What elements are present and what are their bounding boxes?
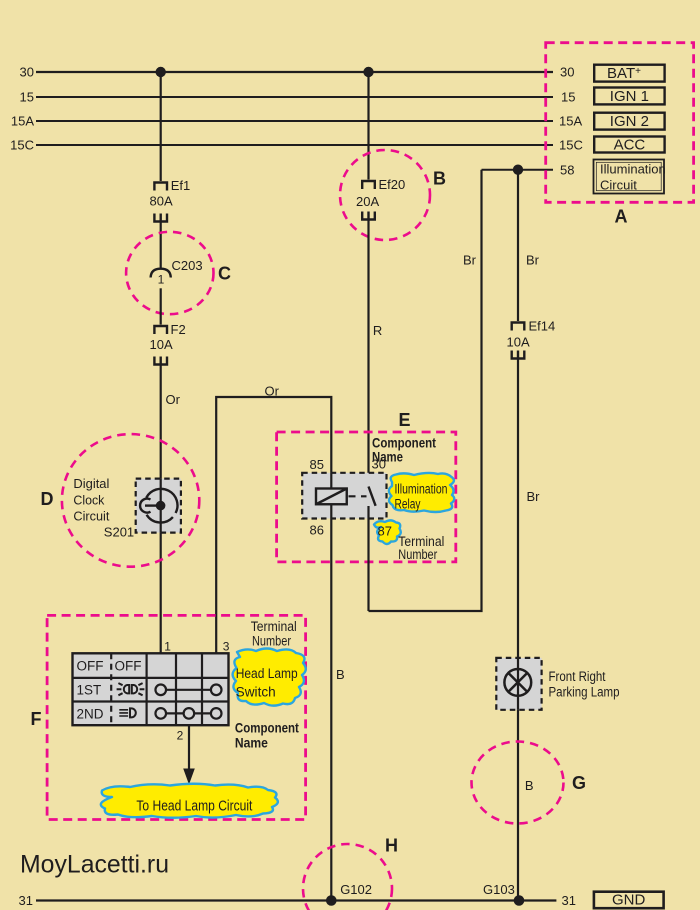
splice S201 center dot (156, 501, 166, 511)
svg-text:58: 58 (560, 162, 574, 177)
wire fuse Ef1 to connector C203 (160, 222, 162, 270)
svg-text:IGN 2: IGN 2 (610, 113, 649, 130)
TOPLEFT (41, 67, 374, 654)
box ACC (594, 137, 664, 153)
svg-text:Name: Name (235, 735, 268, 751)
svg-text:87: 87 (378, 524, 392, 539)
wire Ef20 down to relay contact 30 (367, 220, 369, 487)
svg-text:Number: Number (252, 634, 291, 649)
svg-text:Or: Or (166, 392, 181, 407)
wire from junction 58 down to fuse Ef14 (517, 170, 519, 321)
svg-text:30: 30 (560, 65, 574, 80)
fuse Ef20 (361, 181, 376, 220)
svg-text:G: G (572, 773, 586, 793)
svg-text:To Head Lamp Circuit: To Head Lamp Circuit (136, 798, 253, 815)
svg-text:10A: 10A (507, 335, 530, 350)
bus 15 (36, 96, 553, 98)
svg-text:A: A (615, 207, 628, 227)
bus 31 ground (36, 899, 556, 901)
svg-text:Br: Br (527, 489, 541, 504)
BOTTOM (20, 836, 664, 910)
svg-text:E: E (399, 410, 411, 430)
svg-text:Or: Or (265, 384, 280, 399)
svg-text:Ef1: Ef1 (171, 178, 191, 193)
svg-text:F2: F2 (171, 322, 186, 337)
svg-text:1: 1 (158, 273, 165, 287)
svg-text:15C: 15C (559, 138, 583, 153)
RELAY (277, 165, 524, 901)
table row lines (73, 677, 229, 679)
svg-text:80A: 80A (150, 194, 173, 209)
fuse Ef14 (511, 323, 526, 359)
box IGN 1 (594, 88, 664, 105)
highlight blob To Head Lamp Circuit (101, 784, 278, 818)
ground G103 junction dot (514, 895, 525, 906)
svg-text:R: R (373, 323, 382, 338)
ABOX (546, 43, 694, 227)
svg-text:31: 31 (562, 893, 576, 908)
table dashed column divider (110, 653, 112, 725)
dashed box E illumination relay (277, 432, 456, 562)
lamp bulb symbol (504, 669, 531, 696)
svg-text:86: 86 (310, 523, 324, 538)
splice S201 symbol (140, 489, 177, 523)
highlight blob Illumination Relay (389, 473, 454, 512)
RIGHTSIDE (463, 170, 620, 901)
dashed circle C around connector (126, 232, 213, 314)
MIDDLE (216, 72, 446, 653)
junction dot on bus 30 at x=160.7 (156, 67, 166, 77)
svg-text:Number: Number (398, 547, 437, 562)
svg-text:1ST: 1ST (77, 683, 102, 698)
contact lower terminal wire (367, 506, 369, 611)
svg-text:Br: Br (526, 253, 540, 268)
svg-text:C203: C203 (172, 258, 203, 273)
svg-text:Parking Lamp: Parking Lamp (549, 685, 620, 700)
wire 86 coil down to ground G102 (330, 519, 332, 901)
svg-text:OFF: OFF (77, 659, 104, 674)
dashed circle D digital clock (62, 434, 199, 567)
svg-text:Front Right: Front Right (549, 669, 606, 684)
contact row 1ST: circles and bar (161, 689, 216, 691)
svg-text:Illumination: Illumination (600, 162, 666, 177)
svg-text:OFF: OFF (115, 659, 142, 674)
wire through lamp box (517, 658, 519, 710)
svg-text:H: H (385, 836, 398, 856)
dashed circle H (303, 844, 392, 910)
svg-text:31: 31 (19, 893, 33, 908)
svg-text:Head Lamp: Head Lamp (236, 666, 298, 681)
arrow to head lamp circuit (188, 725, 190, 770)
wire from bus 30 down to fuse Ef20 (367, 72, 369, 180)
wire lamp down to ground G103 (517, 710, 519, 901)
svg-text:15C: 15C (10, 138, 34, 153)
svg-text:Ef14: Ef14 (529, 319, 556, 334)
wire from bus 30 down to fuse Ef1 (160, 72, 162, 181)
bus 58 segment (482, 169, 554, 171)
svg-text:2: 2 (177, 729, 184, 743)
switch S1 table body (73, 653, 229, 725)
svg-text:C: C (218, 264, 231, 284)
dashed circle B around Ef20 (340, 150, 430, 240)
parking lamp gray box (496, 658, 541, 710)
svg-text:S201: S201 (104, 525, 134, 540)
svg-text:G102: G102 (340, 882, 372, 897)
dashed circle G (472, 742, 564, 824)
BUSES (36, 72, 556, 901)
svg-text:Relay: Relay (395, 496, 421, 511)
dashed box F head lamp switch (47, 615, 306, 819)
relay coil (316, 489, 347, 505)
svg-text:IGN 1: IGN 1 (610, 88, 649, 105)
table column lines (146, 653, 148, 725)
highlight blob 87 (374, 520, 401, 544)
relay contact blade (369, 487, 376, 506)
svg-text:F: F (31, 709, 42, 729)
svg-text:Circuit: Circuit (73, 508, 109, 523)
wire F2 down to switch terminal 1 (160, 365, 162, 654)
box IGN 2 (594, 113, 664, 130)
wire Ef14 down to parking lamp (517, 359, 519, 658)
relay U1 gray box (302, 473, 386, 519)
contact row 2ND: circles and bar (161, 712, 216, 714)
svg-text:2ND: 2ND (77, 707, 104, 722)
svg-text:3: 3 (223, 640, 230, 654)
svg-text:15A: 15A (559, 114, 582, 129)
highlight blob Head Lamp Switch (233, 649, 306, 706)
svg-text:Ef20: Ef20 (379, 177, 406, 192)
junction dot on bus 30 at x=368.5 (363, 67, 373, 77)
wire C203 to fuse F2 (160, 288, 162, 324)
svg-text:85: 85 (310, 457, 324, 472)
svg-text:30: 30 (20, 65, 34, 80)
junction dot bus 58 (513, 165, 523, 175)
box BAT+ (594, 65, 664, 82)
svg-text:D: D (41, 489, 54, 509)
wire Or from switch terminal 3 up and right to relay coil 85 (216, 397, 331, 653)
coil wire through box (330, 473, 332, 519)
icon parking lamps (117, 683, 145, 695)
svg-text:Br: Br (463, 253, 477, 268)
svg-text:G103: G103 (483, 882, 515, 897)
wire through S201 box (160, 479, 162, 533)
bus 30 (36, 71, 553, 73)
dashed link coil to contact (349, 495, 367, 497)
svg-text:Circuit: Circuit (600, 178, 637, 193)
svg-text:Switch: Switch (236, 685, 276, 700)
box GND (594, 892, 664, 909)
svg-text:15A: 15A (11, 114, 34, 129)
svg-text:Terminal: Terminal (251, 619, 297, 634)
svg-text:15: 15 (20, 90, 34, 105)
svg-text:GND: GND (612, 892, 646, 909)
svg-text:Digital: Digital (73, 476, 109, 491)
svg-text:30: 30 (372, 457, 386, 472)
wire 87 output right and up to bus 58 (369, 170, 482, 611)
bus 15A (36, 120, 553, 122)
fuse F2 (153, 326, 168, 365)
SWITCH (31, 615, 306, 819)
box Illumination Circuit (594, 160, 665, 194)
splice S201 gray box (136, 479, 181, 533)
svg-text:B: B (433, 169, 446, 189)
fuse Ef1 (153, 183, 168, 222)
svg-text:ACC: ACC (614, 137, 646, 154)
svg-text:MoyLacetti.ru: MoyLacetti.ru (20, 851, 169, 879)
svg-text:B: B (525, 778, 534, 793)
svg-text:20A: 20A (356, 194, 379, 209)
svg-text:Component: Component (235, 720, 299, 736)
ground G102 junction dot (326, 895, 337, 906)
bus 15C (36, 144, 553, 146)
svg-text:1: 1 (164, 640, 171, 654)
svg-text:10A: 10A (150, 337, 173, 352)
connector C203 arc (151, 269, 171, 278)
dashed box A power distribution (546, 43, 694, 203)
svg-text:15: 15 (561, 90, 575, 105)
svg-text:Clock: Clock (73, 492, 104, 507)
svg-text:Illumination: Illumination (395, 482, 448, 497)
svg-text:B: B (336, 667, 345, 682)
icon head lamp low beam (119, 708, 136, 717)
